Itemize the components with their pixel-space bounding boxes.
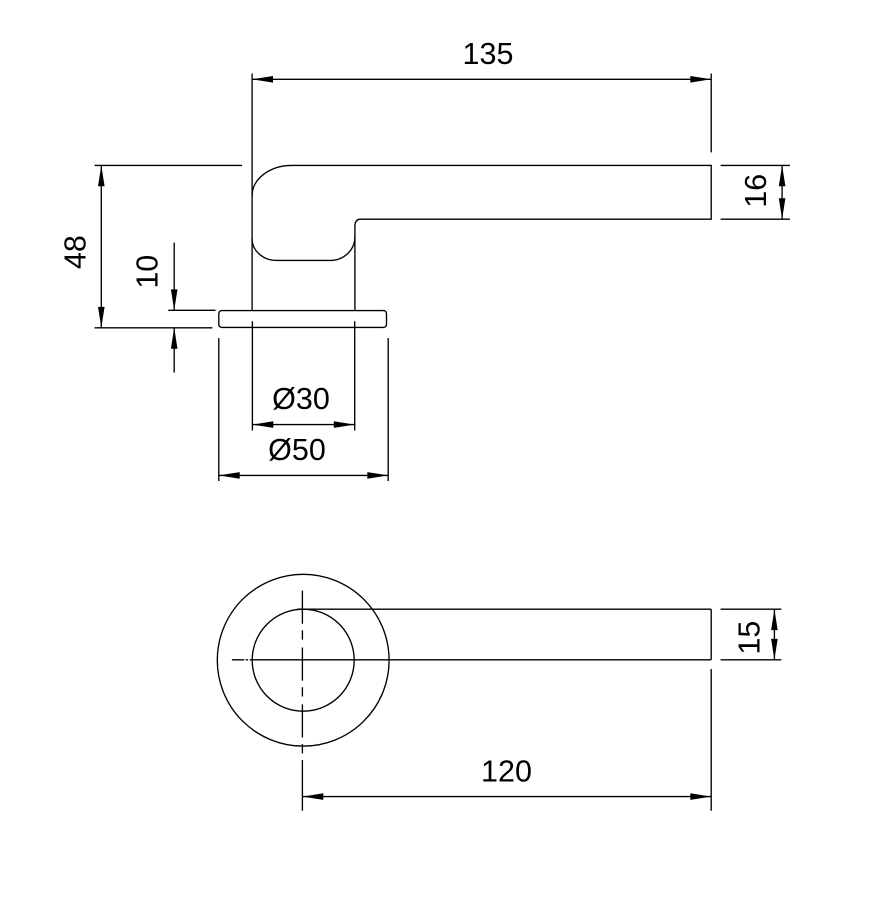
dimension line 16 [781, 165, 783, 219]
lever bar front view right edge [710, 609, 712, 660]
vertical centerline solid extension for 120 [301, 760, 303, 811]
arrowhead 15 top [771, 609, 778, 630]
dimension line d30 [252, 424, 354, 426]
extension lines 15 [721, 609, 782, 660]
lever bar bottom edge / horizontal centerline solid part [251, 659, 711, 661]
arrowhead 16 bottom [779, 198, 786, 219]
arrowhead d30 left [252, 421, 273, 428]
svg-text:135: 135 [463, 37, 514, 71]
dimension line 120 [302, 796, 711, 798]
neck right edge [354, 226, 356, 311]
lever outline top view [252, 165, 711, 260]
rose outer circle front view [217, 574, 389, 746]
arrowhead 120 right [690, 793, 711, 800]
svg-text:16: 16 [739, 174, 773, 208]
arrowhead 48 bottom [98, 307, 105, 328]
dimension line 15 [773, 609, 775, 660]
neck left edge / 135 extension line [251, 74, 253, 311]
arrowhead d50 right [367, 472, 388, 479]
arrowhead 15 bottom [771, 639, 778, 660]
extension line 10 top [168, 309, 215, 311]
arrowhead 10 upper [171, 289, 178, 310]
rose inner circle front view [252, 609, 354, 711]
extension line 48/10 bottom [95, 327, 213, 329]
vertical centerline [301, 591, 303, 756]
arrowhead d50 left [219, 472, 240, 479]
extension lines 16 [721, 165, 790, 219]
arrowhead 135 left [252, 76, 273, 83]
lever bar front view top edge [297, 608, 711, 610]
arrowhead d30 right [334, 421, 355, 428]
arrowhead 10 lower [171, 328, 178, 349]
svg-text:10: 10 [131, 255, 165, 289]
dimension line d50 [219, 474, 388, 476]
arrowhead 120 left [302, 793, 323, 800]
svg-text:Ø30: Ø30 [272, 382, 330, 416]
arrowhead 48 top [98, 165, 105, 186]
svg-text:120: 120 [481, 755, 532, 789]
dimension line 135 [252, 78, 711, 80]
rose plate side view [219, 311, 387, 328]
extension lines d50 [219, 338, 388, 481]
dimension 10 lower stem [173, 328, 175, 373]
extension line 48 top [95, 164, 242, 166]
extension lines d30 [252, 321, 354, 430]
horizontal centerline dash-dot left end [232, 659, 251, 661]
svg-text:48: 48 [59, 235, 93, 269]
arrowhead 16 top [779, 165, 786, 186]
dimension line 48 [100, 165, 102, 327]
dimension 10 upper stem [173, 243, 175, 311]
extension line 120 right [710, 669, 712, 811]
svg-text:15: 15 [732, 621, 766, 655]
svg-text:Ø50: Ø50 [268, 433, 326, 467]
extension line right 135 [710, 74, 712, 153]
arrowhead 135 right [690, 76, 711, 83]
